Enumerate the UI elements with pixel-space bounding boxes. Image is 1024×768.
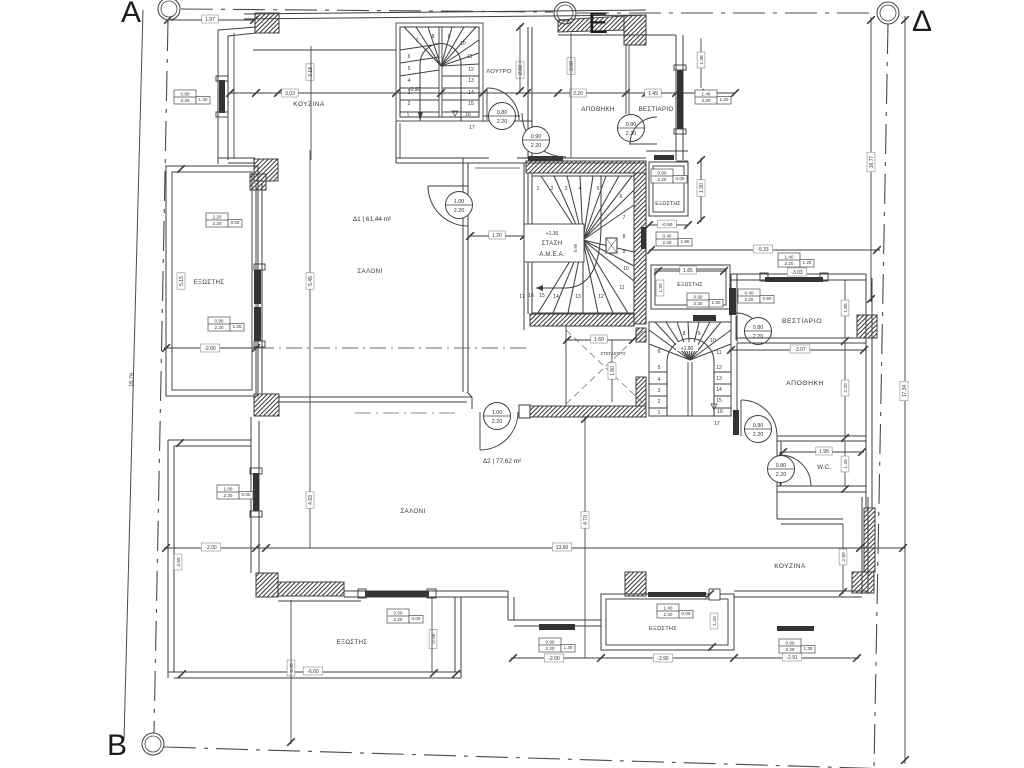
svg-text:1.85: 1.85 — [843, 303, 849, 313]
west wall lower outer — [250, 417, 252, 573]
window jamb — [358, 589, 366, 598]
window jamb — [254, 341, 265, 347]
door arc apothiki — [741, 400, 777, 436]
door circle 0.80/2.20 vestiario — [745, 318, 772, 345]
hatched wall top-right band — [558, 16, 624, 32]
svg-text:4.93: 4.93 — [308, 495, 314, 505]
svg-text:0.80: 0.80 — [497, 110, 508, 116]
svg-text:2.20: 2.20 — [776, 472, 787, 478]
svg-text:+1.30: +1.30 — [546, 231, 559, 237]
witness 3.45 — [290, 600, 292, 744]
wall jog top a — [218, 27, 256, 30]
svg-text:2.20: 2.20 — [454, 208, 465, 214]
witness -2.00 — [431, 597, 433, 672]
svg-text:0.90: 0.90 — [694, 295, 703, 300]
west wall lower inner — [258, 421, 260, 573]
svg-text:0.80: 0.80 — [753, 325, 764, 331]
window bar kitchen south — [777, 626, 814, 631]
window jamb — [250, 468, 262, 474]
east wall inner upper — [682, 35, 684, 160]
svg-text:8: 8 — [683, 331, 686, 337]
opening box bottom a — [539, 638, 575, 652]
window bar east upper — [677, 70, 683, 129]
dimension line 13.60 — [164, 547, 905, 549]
window bar west lower — [253, 473, 259, 511]
window bar mid balcony — [648, 592, 706, 597]
svg-text:-3.07: -3.07 — [794, 347, 806, 353]
svg-text:5.45: 5.45 — [308, 276, 314, 286]
site line left A-B — [124, 10, 143, 740]
balcony SW west b — [173, 446, 175, 672]
site corner circle E — [554, 2, 576, 24]
door leaf vestiario top — [629, 143, 657, 145]
vestiario north wall b — [731, 279, 866, 281]
svg-text:2.20: 2.20 — [394, 617, 403, 622]
site corner circle A — [158, 0, 180, 20]
corridor wall left of entry a — [527, 121, 529, 158]
svg-text:Ε: Ε — [588, 7, 608, 40]
svg-text:ΣΑΛΟΝΙ: ΣΑΛΟΝΙ — [357, 268, 382, 275]
D1 south wall b — [278, 401, 467, 403]
balcony mid outer — [601, 594, 734, 650]
svg-text:2.20: 2.20 — [658, 177, 667, 182]
door circle 0.80/2.20 bathroom — [489, 103, 516, 130]
door leaf wc — [779, 452, 781, 486]
svg-text:0.40: 0.40 — [663, 234, 672, 239]
stair S2 bottom inner edge — [532, 312, 634, 314]
hatched pier balcony SE — [254, 394, 279, 416]
svg-text:4: 4 — [408, 78, 411, 84]
east wall inner right wing — [871, 278, 873, 508]
svg-text:2.20: 2.20 — [694, 301, 703, 306]
canopy dashed cross b — [566, 330, 644, 404]
svg-text:1.97: 1.97 — [205, 17, 215, 23]
svg-text:Δ1 | 61,44 m²: Δ1 | 61,44 m² — [353, 216, 391, 223]
svg-text:16.77: 16.77 — [869, 156, 875, 169]
hall west wall below stair b — [399, 123, 401, 158]
partition APOTHIKI-VESTIARIO b — [628, 45, 630, 114]
svg-text:1: 1 — [407, 113, 410, 119]
svg-text:A: A — [121, 0, 141, 29]
svg-text:1: 1 — [658, 410, 661, 416]
door arc vestiario top — [630, 117, 657, 144]
west wall outer upper — [217, 30, 219, 164]
svg-text:14: 14 — [553, 294, 559, 300]
witness 1.20 right — [844, 441, 846, 486]
dimension label -0.90 — [658, 220, 677, 228]
door circle 1.00/2.20 D2 — [484, 403, 511, 430]
svg-text:1.00: 1.00 — [224, 487, 233, 492]
svg-text:3: 3 — [658, 388, 661, 394]
svg-text:0.90: 0.90 — [786, 641, 795, 646]
witness line 3.00 — [570, 33, 572, 158]
south jog a — [507, 591, 509, 620]
opening box mid balcony — [657, 604, 693, 618]
svg-text:2.20: 2.20 — [753, 432, 764, 438]
reference dashed line mid — [258, 347, 530, 349]
window bar south D2 — [365, 591, 429, 597]
corridor south wall right b — [532, 162, 646, 164]
hall west wall below stair — [395, 121, 397, 163]
svg-text:17: 17 — [714, 421, 720, 427]
dimension line 16.77 — [870, 17, 872, 302]
witness 2.20 right — [844, 343, 846, 436]
svg-text:1.40: 1.40 — [785, 255, 794, 260]
apothiki south wall b — [777, 440, 866, 442]
svg-text:ΣΤΕΓΑΣΤΡΟ: ΣΤΕΓΑΣΤΡΟ — [600, 351, 626, 356]
svg-text:0.00: 0.00 — [412, 616, 421, 621]
svg-text:1.40: 1.40 — [664, 606, 673, 611]
dimension label 17.34 — [900, 381, 908, 401]
stair S2 hatched band bottom — [530, 314, 634, 326]
opening box balcony2 — [687, 293, 723, 307]
stair S1 treads and fan — [400, 27, 479, 121]
dimension line 1.85 — [656, 270, 726, 272]
wc west wall b — [780, 441, 782, 486]
stair S2 hatched band top — [526, 161, 646, 173]
svg-text:0.90: 0.90 — [215, 319, 224, 324]
svg-text:1.30: 1.30 — [233, 324, 242, 329]
door arc wc — [780, 455, 811, 486]
svg-text:11: 11 — [467, 54, 472, 60]
dimension label -2.91 — [782, 653, 802, 661]
hatched pier leg — [250, 174, 266, 190]
shaft box — [606, 238, 617, 253]
dimension label 1.30 vert — [697, 180, 705, 196]
window bar west mid b — [254, 307, 261, 341]
dimension line 1.20 hall — [470, 235, 524, 237]
svg-text:0.90: 0.90 — [531, 134, 542, 140]
balcony SW north b — [174, 445, 251, 447]
witness line 5.45 — [309, 150, 311, 400]
balcony SW south a — [168, 671, 461, 673]
svg-text:-6.60: -6.60 — [307, 669, 319, 675]
svg-text:15: 15 — [716, 398, 722, 404]
kitchen south wall b — [228, 162, 255, 164]
svg-text:2.20: 2.20 — [664, 612, 673, 617]
svg-text:-3.03: -3.03 — [791, 270, 803, 276]
vestiario south wall a — [737, 337, 866, 339]
dimension label 1.20 mid — [710, 613, 718, 629]
door leaf apothiki — [740, 400, 742, 436]
AMEA landing box — [524, 224, 584, 262]
svg-text:4: 4 — [579, 186, 582, 192]
svg-text:-2.00: -2.00 — [204, 346, 216, 352]
svg-text:8: 8 — [432, 34, 435, 40]
svg-text:5: 5 — [597, 186, 600, 192]
dimension label 1.20 vert — [841, 456, 849, 472]
west wall mid inner — [261, 183, 263, 394]
bathroom south wall inner — [483, 115, 520, 117]
hatched pier east a — [857, 315, 877, 338]
svg-text:ΕΞΩΣΤΗΣ: ΕΞΩΣΤΗΣ — [677, 282, 702, 288]
svg-text:2.20: 2.20 — [181, 98, 190, 103]
south wall recessed a — [508, 619, 601, 621]
dimension line 1.95 — [781, 451, 864, 453]
stair S2 step numbers — [519, 186, 629, 300]
stair hall wall outer — [523, 163, 525, 330]
svg-text:14: 14 — [716, 387, 722, 393]
svg-text:2.40: 2.40 — [663, 240, 672, 245]
svg-text:2: 2 — [551, 186, 554, 192]
svg-text:1.85: 1.85 — [683, 268, 693, 274]
building top wall inner — [244, 15, 646, 19]
hall south wall seg c — [517, 157, 532, 159]
opening box bottom b — [779, 639, 815, 653]
door jamb bar apothiki — [733, 410, 739, 435]
east wall outer right wing — [865, 274, 867, 508]
south jog b — [513, 597, 515, 620]
door arc vestiario right — [736, 313, 763, 340]
dimension label 1.20 hall — [489, 231, 505, 239]
svg-text:-2.90: -2.90 — [657, 656, 669, 662]
svg-text:7: 7 — [416, 38, 419, 44]
bathroom south wall — [483, 120, 532, 122]
hatched wall south-west vert — [256, 573, 278, 597]
east wall outer upper — [675, 35, 677, 160]
window bar south recessed — [539, 624, 575, 630]
svg-text:ΛΟΥΤΡΟ: ΛΟΥΤΡΟ — [486, 69, 512, 75]
svg-text:2.20: 2.20 — [745, 297, 754, 302]
dimension label -3.03 — [787, 268, 807, 276]
svg-text:4: 4 — [658, 377, 661, 383]
dimension line 1.60 — [565, 339, 634, 341]
svg-text:ΒΕΣΤΙΑΡΙΟ: ΒΕΣΤΙΑΡΙΟ — [782, 318, 822, 325]
dimension label 1.85 — [680, 266, 696, 274]
dimension label -3.07 — [790, 345, 810, 353]
stair S2 west edge a — [527, 173, 529, 314]
opening box vestiario door — [738, 289, 774, 303]
window bar west upper — [219, 80, 225, 113]
dimension line 3.03 right — [729, 349, 866, 351]
site corner circle B — [142, 733, 164, 755]
hatched wall pier top-left — [255, 13, 279, 33]
svg-text:-2.00: -2.00 — [205, 545, 217, 551]
svg-text:0.95: 0.95 — [573, 243, 578, 252]
wc west wall a — [776, 436, 778, 492]
svg-text:2.20: 2.20 — [546, 646, 555, 651]
kitchen south wall a — [218, 157, 255, 159]
balcony SW east b — [460, 597, 462, 678]
dimension line 2.00 west — [164, 347, 258, 349]
site boundary top A-E — [181, 9, 553, 12]
svg-text:ΕΞΩΣΤΗΣ: ΕΞΩΣΤΗΣ — [655, 201, 680, 207]
dimension label 5.15 — [177, 273, 185, 289]
svg-text:1.00: 1.00 — [454, 199, 465, 205]
door leaf living D1 — [428, 185, 468, 187]
svg-text:ΣΤΑΣΗ: ΣΤΑΣΗ — [542, 241, 563, 247]
svg-text:13: 13 — [468, 78, 474, 84]
kitchen interior wall line — [253, 49, 396, 51]
hall west wall inner — [467, 163, 469, 392]
hatched pier east b — [864, 508, 875, 572]
window jamb — [674, 129, 686, 134]
stair side door bar — [641, 227, 646, 249]
svg-text:9: 9 — [448, 34, 451, 40]
window bar vestiario west — [729, 288, 736, 315]
svg-text:1.20: 1.20 — [803, 260, 812, 265]
svg-text:2.20: 2.20 — [213, 221, 222, 226]
dimension label 1.85 vert — [841, 300, 849, 316]
svg-text:Δ2 | 77,62 m²: Δ2 | 77,62 m² — [483, 458, 521, 465]
window jamb — [820, 273, 828, 281]
svg-text:12: 12 — [598, 294, 604, 300]
svg-text:3: 3 — [565, 186, 568, 192]
dimension label 1.38 — [697, 52, 705, 68]
partition APOTHIKI-VESTIARIO a — [625, 45, 627, 114]
stair S3 step numbers — [658, 331, 723, 427]
dimension label 1.20 balcony2 — [656, 280, 664, 296]
dimension label 1.97 — [202, 15, 218, 23]
svg-text:2.20: 2.20 — [786, 647, 795, 652]
svg-text:Δ: Δ — [912, 5, 932, 38]
tick mid balcony SE — [708, 643, 716, 651]
svg-text:2.20: 2.20 — [753, 334, 764, 340]
window jamb — [427, 589, 436, 598]
svg-text:10: 10 — [460, 41, 466, 47]
hatched pier canopy right b — [636, 377, 646, 406]
kitchen east wall a — [861, 497, 863, 594]
door arc D2 entry — [480, 412, 518, 450]
svg-text:7: 7 — [623, 215, 626, 221]
hatched pier east c — [852, 572, 874, 593]
window bar west mid a — [254, 270, 261, 304]
witness line 4.93 — [309, 400, 311, 548]
dimension label 3.18 — [306, 64, 314, 80]
D2 south wall a — [344, 590, 508, 592]
svg-text:ΣΑΛΟΝΙ: ΣΑΛΟΝΙ — [400, 508, 425, 515]
dimension chain bottom — [511, 657, 859, 659]
balcony SW west a — [167, 440, 169, 678]
wall shadow line under hatch — [278, 600, 361, 602]
stair S3 outline — [649, 322, 731, 416]
stair S1 step numbers — [407, 34, 475, 131]
svg-text:2.00: 2.00 — [394, 611, 403, 616]
svg-text:13: 13 — [716, 376, 722, 382]
hatched pier mid-south — [625, 572, 646, 596]
svg-text:16: 16 — [465, 112, 471, 118]
svg-text:Α.Μ.Ε.Α.: Α.Μ.Ε.Α. — [539, 252, 564, 258]
balcony mid inner — [606, 599, 728, 645]
svg-text:1.00: 1.00 — [492, 410, 503, 416]
svg-text:3.03: 3.03 — [285, 91, 295, 97]
svg-text:2.20: 2.20 — [843, 383, 849, 393]
corridor south wall right a — [532, 157, 646, 159]
svg-text:15: 15 — [539, 293, 545, 299]
door circle 0.90/2.20 entry — [523, 127, 550, 154]
site boundary right dashed — [874, 24, 888, 768]
svg-text:0.40: 0.40 — [745, 291, 754, 296]
dimension line 0.90 balcony1 — [649, 224, 688, 226]
svg-text:1: 1 — [537, 186, 540, 192]
opening box west balcony b — [208, 317, 244, 331]
hatched wall pier mid-left — [254, 159, 278, 181]
door leaf bathroom — [486, 88, 488, 120]
svg-text:2.20: 2.20 — [573, 91, 583, 97]
apothiki west wall a — [730, 342, 732, 410]
bathroom east wall b — [531, 27, 533, 121]
svg-text:17: 17 — [469, 125, 475, 131]
opening box west balcony a — [206, 213, 242, 227]
svg-text:-2.91: -2.91 — [786, 655, 798, 661]
hall south wall a — [396, 157, 463, 159]
svg-text:W.C.: W.C. — [817, 464, 831, 471]
tick mid balcony NE — [706, 590, 714, 598]
D1 south wall a — [278, 396, 472, 398]
dimension line 5.33 — [649, 249, 880, 251]
svg-text:2.20: 2.20 — [224, 493, 233, 498]
svg-text:4.70: 4.70 — [583, 515, 589, 525]
level label +1.90 — [676, 342, 698, 352]
dimension label 2.20 — [570, 89, 586, 97]
hall west wall outer — [462, 158, 464, 392]
dimension label 4.93 — [306, 492, 314, 508]
apothiki west wall b — [736, 343, 738, 410]
dimension label 3.00 — [567, 58, 575, 74]
svg-text:16.79: 16.79 — [129, 373, 136, 387]
hall south wall seg d — [463, 162, 532, 164]
balcony SW east a — [454, 597, 456, 672]
svg-text:3.45: 3.45 — [289, 663, 295, 673]
west wall inner upper — [227, 36, 229, 160]
door circle 0.90/2.20 apothiki — [745, 416, 772, 443]
canopy door gap box — [519, 405, 530, 418]
svg-text:2.20: 2.20 — [215, 325, 224, 330]
hatched band below canopy — [530, 406, 646, 417]
svg-text:-0.90: -0.90 — [662, 222, 673, 228]
dimension label 3.03 — [282, 89, 298, 97]
corridor wall left of entry b — [531, 121, 533, 158]
window jamb mid balcony — [709, 589, 720, 600]
stair S3 spine a — [687, 362, 689, 416]
kitchen south wall b — [734, 596, 862, 598]
svg-text:5.15: 5.15 — [179, 276, 185, 286]
svg-text:2.20: 2.20 — [213, 215, 222, 220]
door leaf D2 entry — [479, 412, 481, 450]
stair S2 hatched band right — [634, 173, 646, 324]
svg-text:1.20: 1.20 — [492, 233, 502, 239]
svg-text:0.90: 0.90 — [763, 296, 772, 301]
svg-text:ΑΠΟΘΗΚΗ: ΑΠΟΘΗΚΗ — [581, 106, 614, 113]
svg-text:9: 9 — [623, 249, 626, 255]
svg-text:14: 14 — [468, 90, 474, 96]
window bar vestiario — [765, 277, 823, 282]
svg-text:5: 5 — [658, 365, 661, 371]
svg-text:3.55: 3.55 — [176, 557, 182, 567]
svg-text:8: 8 — [623, 234, 626, 240]
dimension line 1.30 vert — [700, 158, 702, 222]
storeroom interior north line — [558, 34, 676, 36]
wc south wall a — [777, 485, 866, 487]
entry door bar D1 — [528, 156, 563, 161]
stair block S1 outline — [396, 23, 483, 121]
window jamb — [216, 112, 228, 117]
dimension line 17.34 — [904, 16, 906, 764]
balcony SW south b — [174, 677, 461, 679]
svg-text:-2.00: -2.00 — [548, 656, 560, 662]
kitchen west wall jog a — [776, 492, 778, 519]
door circle 0.80/2.20 wc — [768, 456, 795, 483]
svg-text:12: 12 — [468, 67, 474, 73]
svg-text:10: 10 — [623, 266, 629, 272]
svg-text:0.80: 0.80 — [776, 463, 787, 469]
vestiario south wall b — [737, 342, 866, 344]
svg-text:0.00: 0.00 — [242, 492, 251, 497]
site boundary bottom from B — [164, 747, 1024, 768]
door circle 0.80/2.30 — [618, 115, 645, 142]
apothiki south wall a — [777, 435, 866, 437]
dimension label -2.00 bottom — [544, 654, 564, 662]
